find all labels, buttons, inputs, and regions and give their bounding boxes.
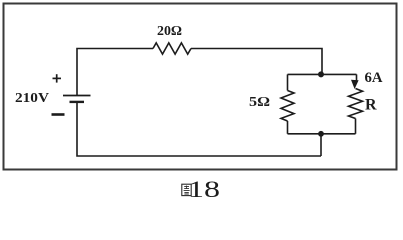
resistor R_20 zigzag 20ohm — [153, 43, 191, 54]
resistor R_5 zigzag 5ohm — [281, 91, 294, 122]
wire right branch bottom — [355, 119, 357, 134]
resistor R zigzag — [349, 89, 363, 119]
wire bottom return to battery — [77, 102, 321, 156]
caption figure character (CJK tu) drawn as glyph — [182, 184, 191, 195]
wire top-left from battery to 20-ohm resistor — [77, 49, 153, 96]
svg-text:210V: 210V — [15, 91, 49, 106]
svg-text:18: 18 — [188, 177, 220, 201]
wire top rail of parallel section — [288, 73, 357, 75]
battery V1 short plate — [70, 101, 85, 103]
wire left branch top — [287, 74, 289, 90]
svg-text:6A: 6A — [365, 70, 383, 86]
wire top-right from resistor to corner — [191, 49, 322, 75]
node bottom junction dot — [318, 131, 324, 137]
wire bottom rail of parallel section — [288, 133, 356, 135]
arrow 6A current arrowhead — [351, 80, 359, 89]
wire bottom drop from junction — [320, 134, 322, 156]
battery V1 long plate — [63, 95, 91, 97]
svg-text:20Ω: 20Ω — [157, 24, 182, 39]
node top junction dot — [318, 71, 324, 77]
svg-text:5Ω: 5Ω — [249, 95, 270, 110]
svg-text:R: R — [365, 97, 377, 114]
label minus sign — [52, 113, 65, 116]
wire left branch bottom — [287, 121, 289, 134]
wire right branch corner with arrow shaft — [355, 74, 356, 84]
label plus sign — [53, 74, 62, 82]
